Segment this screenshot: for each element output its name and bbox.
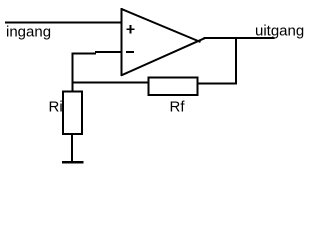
wire inverting input (left segment)	[72, 52, 97, 54]
svg-text:ingang: ingang	[6, 24, 51, 41]
resistor Ri	[63, 92, 82, 135]
op-amp minus input symbol	[126, 51, 134, 53]
wire output node vertical	[235, 38, 237, 85]
wire Ri to ground	[71, 134, 73, 163]
op-amp plus input symbol	[126, 25, 134, 33]
wire feedback right (Rf to output node)	[197, 83, 237, 85]
op-amp U1	[121, 8, 206, 76]
svg-text:Rf: Rf	[170, 99, 186, 116]
wire node A vertical (inverting input to feedback node)	[72, 52, 74, 92]
svg-text:Ri: Ri	[49, 99, 63, 116]
wire ingang input	[5, 22, 121, 24]
ground	[62, 161, 84, 163]
wire uitgang output	[204, 37, 275, 39]
wire inverting input (right segment)	[95, 51, 121, 53]
resistor Rf	[149, 78, 198, 96]
wire feedback left (node A to Rf)	[72, 82, 150, 84]
svg-text:uitgang: uitgang	[255, 23, 304, 40]
